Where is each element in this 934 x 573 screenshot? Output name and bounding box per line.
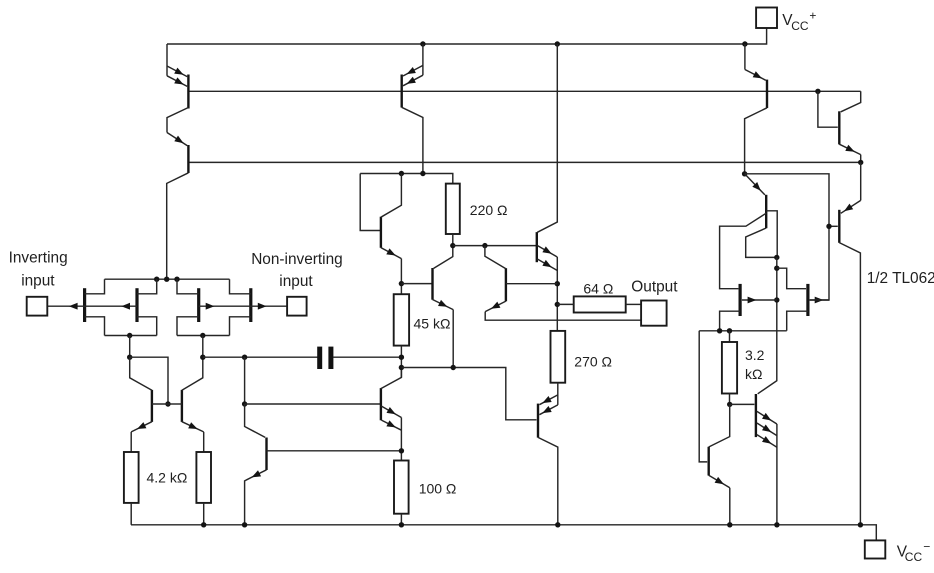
junction mirror base node (165, 401, 170, 406)
JFET J5 channel bar (738, 284, 741, 316)
wire J4 bottom lead (230, 317, 251, 336)
transistor Q5 emitter 1 (403, 65, 423, 76)
svg-text:4.2 kΩ: 4.2 kΩ (147, 469, 188, 485)
wire 64 right (626, 303, 641, 305)
wire Q13 base lead (829, 225, 838, 227)
transistor Q14 base bar (765, 195, 767, 228)
wire Qa base line (267, 450, 402, 452)
wire Q8 base line (453, 245, 537, 247)
wire Q15 base lead (730, 403, 755, 405)
transistor Qb emitter 2 (381, 420, 401, 430)
transistor Q7 base bar (431, 268, 433, 300)
wire Q12 collector (841, 91, 861, 112)
wire right drain down (202, 336, 204, 358)
transistor Qb base bar (380, 388, 382, 420)
wire cap node down (244, 357, 246, 404)
JFET J6 gate arrow (815, 297, 824, 304)
junction cap right node (399, 355, 404, 360)
junction central bias top (774, 255, 779, 260)
junction Q13 base node (826, 224, 831, 229)
JFET J2 channel bar (135, 288, 138, 322)
transistor Q14 emitter (745, 174, 765, 195)
junction J3 source (174, 277, 179, 282)
transistor Q16 base bar (708, 447, 710, 476)
wire Q4 collector (182, 357, 203, 390)
transistor Q8 emitter 2 (537, 259, 557, 271)
wire Q14 collector 2 (746, 228, 777, 257)
wire J3 bottom lead (177, 317, 199, 336)
transistor Q8 base bar (536, 232, 538, 262)
wire bias rail 2 (188, 90, 860, 92)
svg-text:Output: Output (631, 279, 678, 296)
svg-text:input: input (21, 273, 55, 290)
wire R1 bottom (130, 503, 132, 525)
wire J1 bottom lead (85, 317, 105, 336)
transistor Q5 emitter 2 (403, 75, 423, 86)
junction Q9 base node (555, 281, 560, 286)
wire left drain down (129, 336, 131, 358)
terminal inverting input (27, 297, 48, 316)
wire R8 top (729, 331, 731, 342)
svg-text:1/2 TL062: 1/2 TL062 (867, 270, 934, 287)
svg-text:3.2: 3.2 (745, 347, 765, 363)
wire Q9 base lead (506, 283, 557, 285)
transistor Q6 base bar (380, 217, 382, 248)
junction J2 source (154, 277, 159, 282)
wire 64 left (557, 303, 573, 305)
JFET J1 gate arrow (69, 303, 78, 310)
resistor R3 100 (394, 461, 409, 514)
resistor R8 3.2k (722, 342, 737, 394)
svg-text:220 Ω: 220 Ω (470, 202, 508, 218)
svg-text:CC: CC (905, 550, 923, 564)
wire Q7 base line (401, 283, 432, 285)
junction comp node (399, 365, 404, 370)
svg-text:+: + (809, 8, 816, 22)
svg-text:−: − (923, 540, 930, 554)
svg-text:Inverting: Inverting (9, 250, 68, 267)
junction R3 rail (399, 522, 404, 527)
wire left drain bus (105, 335, 157, 337)
transistor Q6 emitter (381, 248, 402, 259)
terminal VCC+ (756, 8, 777, 29)
resistor R5 45k (394, 294, 409, 345)
junction node A left (399, 171, 404, 176)
capacitor C1 plate 1 (317, 347, 322, 369)
wire R2 bottom (203, 503, 205, 525)
transistor Q4 emitter (182, 422, 204, 432)
wire J6 bottom lead (787, 311, 808, 331)
transistor Q2 emitter (167, 133, 187, 146)
transistor Q9 base bar (505, 268, 507, 301)
transistor Qa emitter (246, 470, 267, 480)
junction node C (200, 355, 205, 360)
wire bias bus to Q16 base (699, 331, 707, 462)
transistor Q12 emitter (839, 144, 860, 154)
transistor Q10 emitter 1 (539, 395, 557, 405)
transistor Q1 emitter 1 (167, 66, 187, 77)
wire Q9 collector (485, 246, 506, 269)
wire Q13 collector to rail (839, 243, 860, 525)
svg-text:Non-inverting: Non-inverting (251, 251, 343, 268)
transistor Q13 base bar (838, 210, 840, 243)
wire R3 bottom (400, 514, 402, 525)
wire Q16 emitter down (729, 488, 731, 525)
svg-text:270 Ω: 270 Ω (574, 354, 612, 370)
wire Qa emitter down (245, 480, 246, 525)
wire Q7 emitter down (452, 310, 454, 368)
wire J6 gate line (810, 299, 829, 301)
junction Qa emitter rail (242, 522, 247, 527)
wire Q12 emitter down (860, 155, 862, 163)
junction J5 source node (717, 328, 722, 333)
transistor Qa base bar (265, 438, 267, 471)
transistor Q2 base bar (187, 145, 189, 173)
transistor Q8 emitter 1 (537, 246, 557, 258)
junction left drain node (127, 333, 132, 338)
resistor R1 4.2k (124, 452, 139, 503)
junction Q16 rail (727, 522, 732, 527)
wire mirror base tie (130, 357, 168, 404)
transistor Q3 base bar (151, 390, 153, 422)
junction cap left node (242, 355, 247, 360)
wire central bias vertical (758, 257, 777, 393)
wire output node vertical (556, 257, 558, 331)
junction node A right (420, 171, 425, 176)
wire R8 bottom (729, 394, 731, 405)
transistor Q15 base bar (755, 394, 757, 437)
svg-text:64 Ω: 64 Ω (583, 280, 613, 296)
JFET J6 channel bar (806, 284, 809, 316)
resistor R6 64 (574, 296, 626, 312)
wire comp node line (401, 368, 536, 420)
junction Q10 rail (555, 522, 560, 527)
junction output node (555, 302, 560, 307)
wire 45k bottom (400, 346, 402, 378)
wire J5 gate line (742, 299, 777, 301)
wire Q9 emitter to output (485, 312, 641, 321)
junction Qa base node (399, 448, 404, 453)
junction R2 rail (201, 522, 206, 527)
wire Q12 base path (818, 91, 838, 127)
transistor Q13 emitter (841, 200, 861, 213)
wire bias node D across (745, 174, 829, 300)
wire Q16 collector (709, 404, 730, 447)
wire Q14 collector 1 (720, 213, 767, 289)
wire JFET source bus (105, 278, 230, 280)
JFET J2 gate arrow (121, 303, 130, 310)
transistor Q11 base bar (766, 80, 768, 108)
junction right drain node (200, 333, 205, 338)
junction Q15 rail (774, 522, 779, 527)
JFET J4 gate arrow (258, 303, 267, 310)
transistor Q16 emitter (709, 475, 730, 488)
JFET J4 channel bar (249, 288, 252, 322)
junction Q13 rail (858, 522, 863, 527)
wire J3 top lead (177, 279, 199, 294)
wire Q11 collector (745, 108, 767, 174)
wire inverting gate line (47, 305, 137, 307)
transistor Q1 base bar (187, 75, 189, 109)
transistor Q4 base bar (181, 390, 183, 422)
transistor Q5 base bar (401, 75, 403, 108)
wire Q1 collector (167, 108, 188, 133)
wire R7 bottom (557, 383, 559, 405)
wire node C to cap (203, 356, 318, 358)
junction top rail right-mid (555, 41, 560, 46)
transistor Qb emitter 1 (381, 406, 401, 417)
wire Q6 collector (381, 174, 402, 218)
wire cap right (333, 356, 401, 358)
junction top rail right (742, 41, 747, 46)
junction bias node D (742, 171, 747, 176)
transistor Q11 emitter (745, 70, 766, 81)
wire Q2 collector to input stage (167, 173, 189, 279)
wire J2 top lead (137, 279, 157, 294)
junction R8 top node (727, 328, 732, 333)
junction Q9 collector node (482, 243, 487, 248)
transistor Q3 emitter (131, 422, 152, 432)
capacitor C1 plate 2 (328, 347, 333, 369)
transistor Q15 emitter 3 (757, 435, 777, 448)
wire J2 bottom lead (137, 317, 157, 336)
wire Qb emitter down (400, 418, 402, 461)
junction Q7 emitter node (451, 365, 456, 370)
resistor R7 270 (551, 331, 566, 383)
transistor Q15 emitter 1 (757, 411, 777, 424)
wire J5 bottom lead (720, 311, 741, 331)
resistor R4 220 (446, 184, 460, 234)
wire Q8 collector (537, 44, 557, 232)
wire Qb collector (381, 368, 402, 389)
wire Q11 emitter drop (744, 44, 746, 70)
JFET J3 channel bar (197, 288, 200, 322)
svg-text:100 Ω: 100 Ω (419, 480, 457, 496)
transistor Q10 base bar (537, 404, 539, 438)
svg-text:input: input (279, 273, 313, 290)
wire Q15 emitter down (776, 424, 778, 525)
transistor Q7 emitter (433, 300, 454, 310)
transistor Q9 emitter (485, 301, 506, 312)
wire Q3 emitter to R1 (130, 432, 132, 452)
wire Q3 collector (130, 357, 152, 390)
wire J4 top lead (230, 279, 251, 294)
junction top rail mid (420, 41, 425, 46)
svg-text:45 kΩ: 45 kΩ (414, 316, 451, 332)
wire VCC+ top rail (167, 28, 767, 44)
junction Qb base node (242, 401, 247, 406)
wire Q4 base lead (168, 403, 182, 405)
junction Q7 collector node (450, 243, 455, 248)
wire J6 top lead (777, 268, 806, 289)
wire Q5 collector (402, 107, 423, 173)
wire Q10 collector (538, 437, 558, 524)
wire Q6 emitter down (400, 259, 402, 295)
JFET J1 channel bar (83, 288, 86, 322)
junction node B (127, 355, 132, 360)
transistor Q1 emitter 2 (167, 76, 187, 87)
wire R4 bottom (434, 234, 453, 268)
transistor Q12 base bar (838, 111, 840, 144)
wire Q4 emitter to R2 (203, 432, 205, 452)
wire right drain bus (177, 335, 230, 337)
wire Qa collector (245, 404, 266, 437)
JFET J3 gate arrow (206, 303, 215, 310)
wire bias rail 3 (188, 161, 860, 163)
JFET J5 gate arrow (748, 297, 757, 304)
wire Q3 base lead (152, 403, 168, 405)
wire Q5 emitter drop (422, 44, 424, 75)
junction tail current node (164, 277, 169, 282)
wire Q13 emitter drop (860, 162, 862, 200)
svg-text:CC: CC (791, 19, 809, 33)
transistor Q15 emitter 2 (757, 423, 777, 436)
wire non-inverting gate line (199, 305, 287, 307)
terminal non-inverting input (287, 297, 307, 316)
wire VCC- bottom rail (131, 525, 876, 541)
transistor Q10 emitter 2 (539, 405, 557, 415)
resistor R2 4.2k (196, 452, 211, 503)
junction Q15 base node (727, 402, 732, 407)
junction J6 drain node (774, 266, 779, 271)
wire bias bus (699, 330, 787, 332)
svg-text:kΩ: kΩ (745, 366, 762, 382)
wire Q14 base (766, 211, 777, 258)
terminal Output (641, 301, 667, 326)
junction 45k top node (399, 281, 404, 286)
wire J1 top lead (85, 279, 105, 294)
terminal VCC- (865, 540, 886, 558)
wire D2 base path (360, 174, 381, 231)
wire Q1 emitter drop (166, 44, 168, 76)
junction J5 gate node (774, 297, 779, 302)
wire Qb base line (245, 403, 381, 405)
junction rail3 right end (858, 160, 863, 165)
junction rail2 Q12 base (815, 89, 820, 94)
wire node A (360, 174, 453, 184)
